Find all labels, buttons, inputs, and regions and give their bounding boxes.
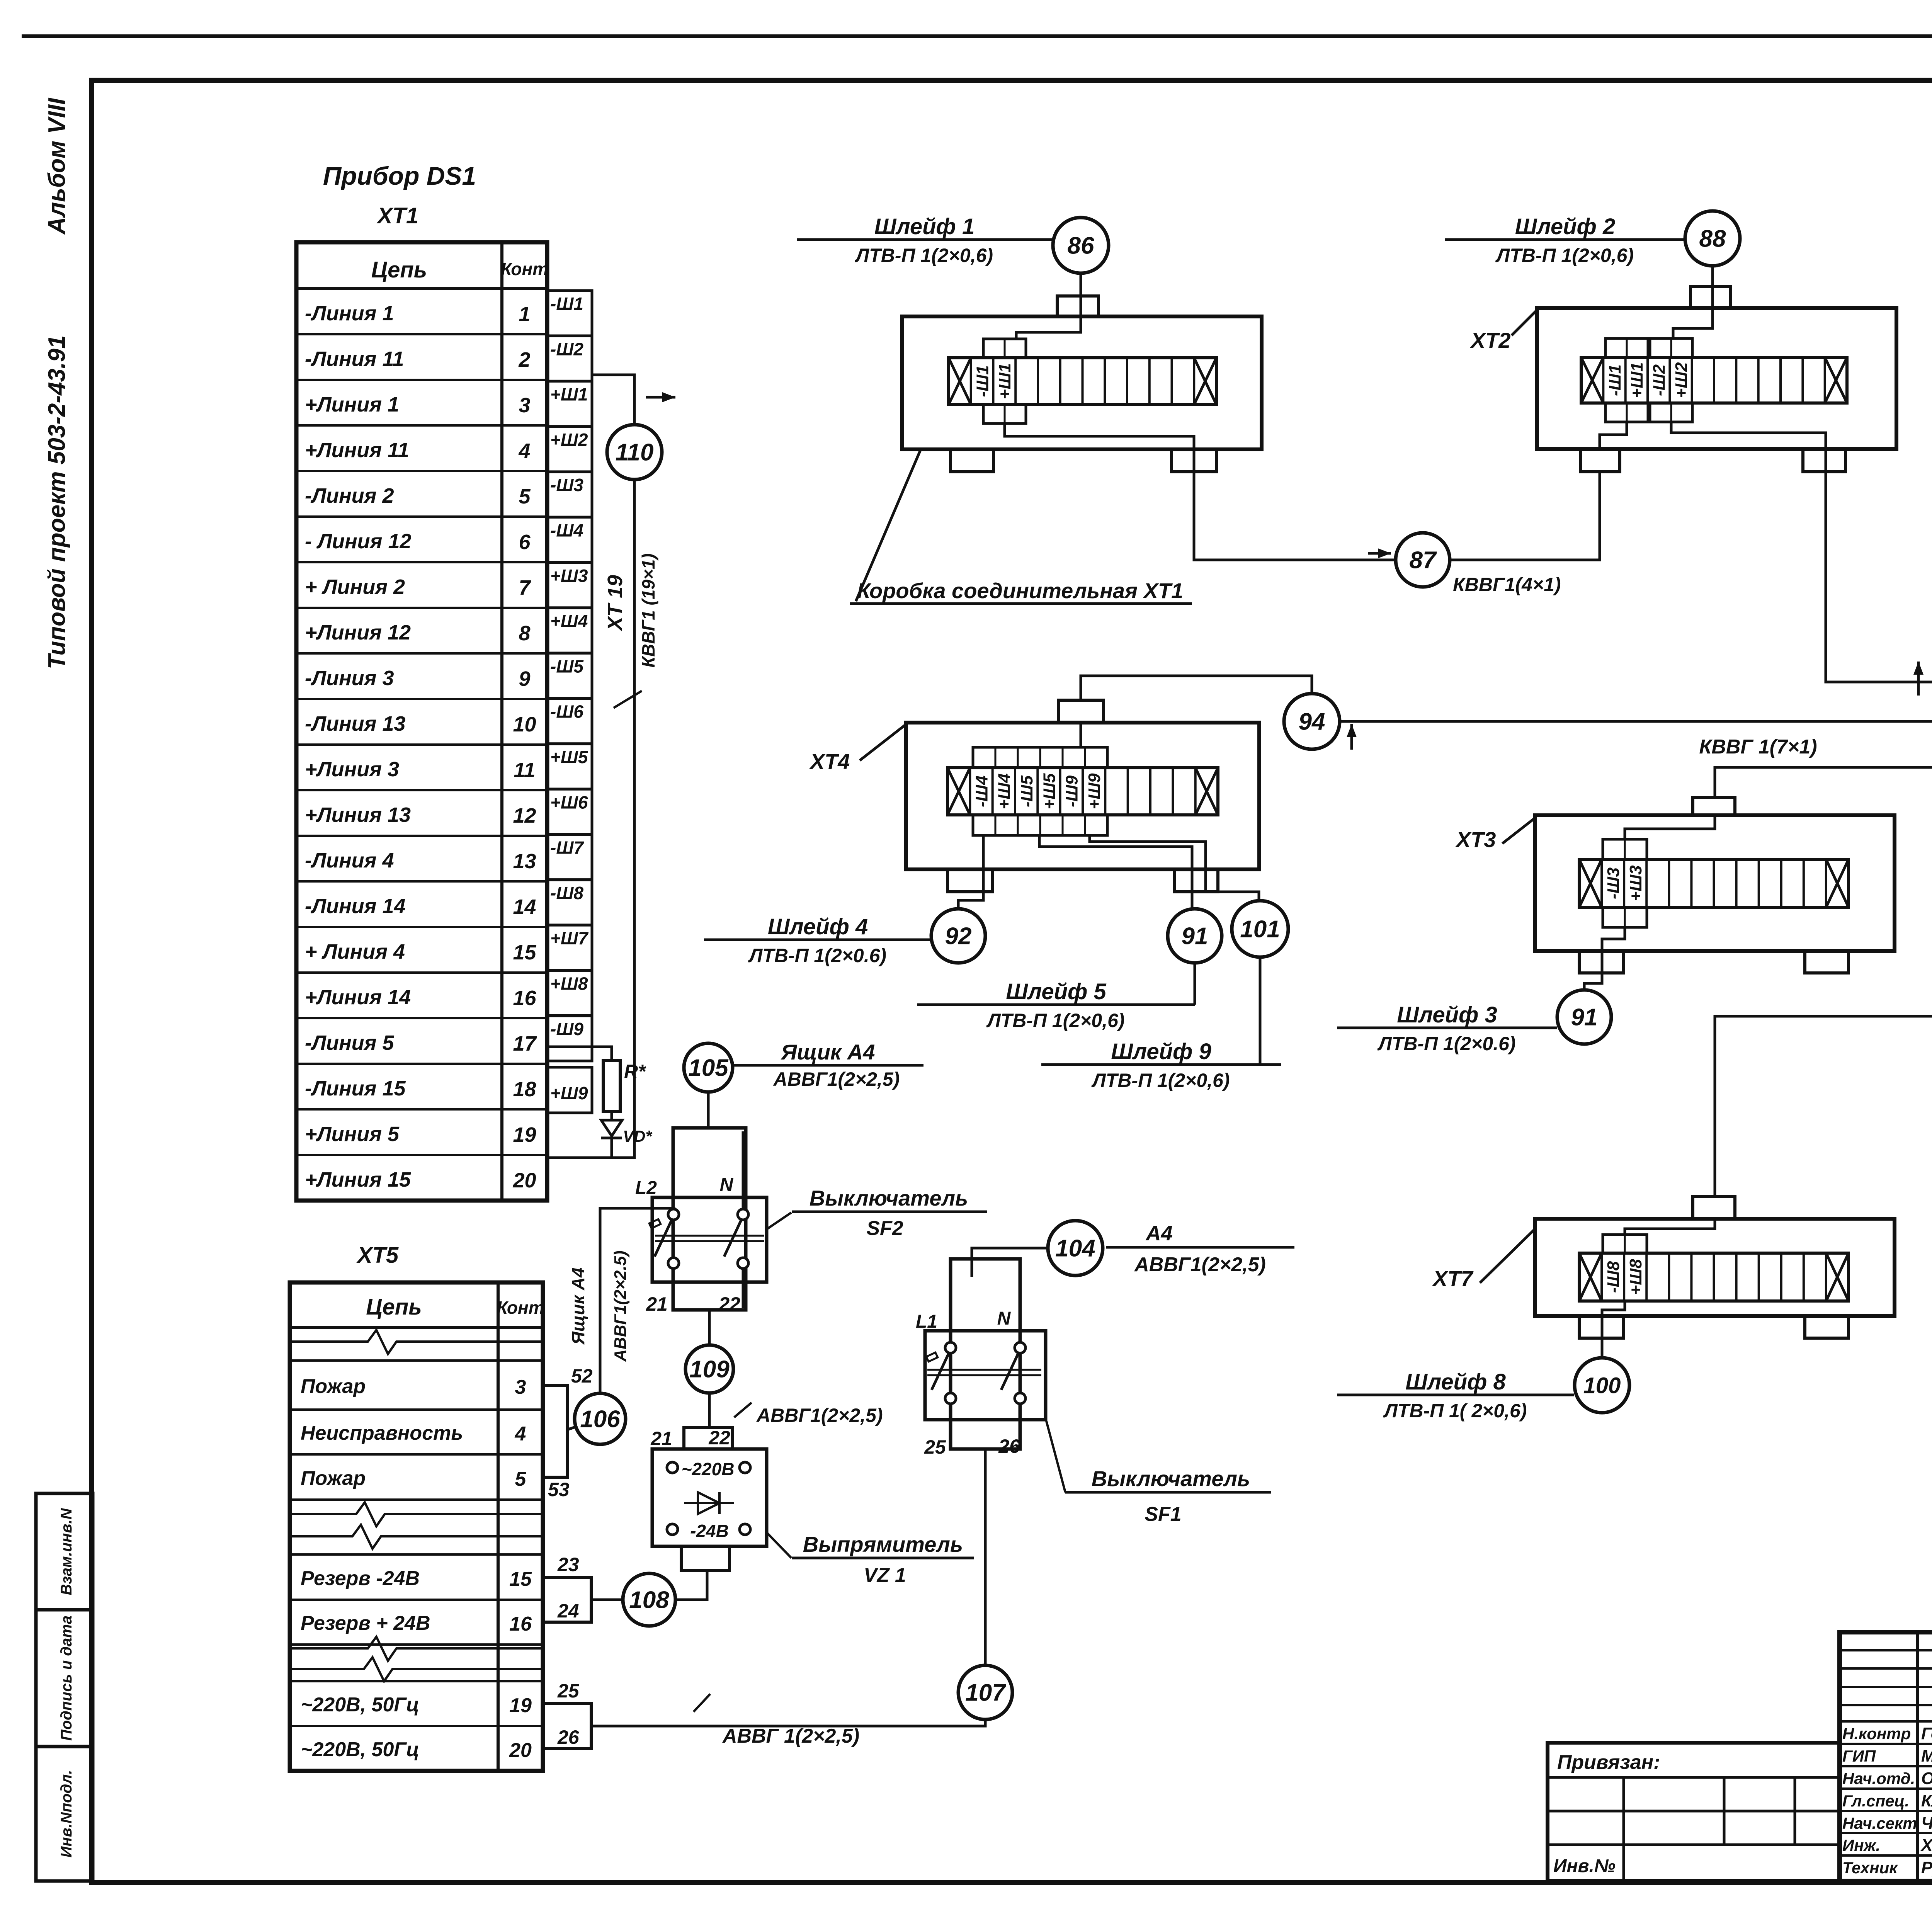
- svg-text:22: 22: [708, 1427, 730, 1449]
- box ХТ4 top tab: [1058, 700, 1104, 723]
- sheet top edge line: [22, 34, 1932, 38]
- svg-text:ХТ7: ХТ7: [1432, 1266, 1474, 1291]
- cable number circle 91 (loop 3): [1557, 990, 1611, 1044]
- junction box ХТ7 body: [1535, 1219, 1895, 1316]
- table row line 15: [296, 926, 547, 928]
- svg-text:ЛТВ-П 1(2×0,6): ЛТВ-П 1(2×0,6): [1091, 1070, 1230, 1091]
- box ХТ7 top tab: [1693, 1197, 1735, 1219]
- SF1 blades: [932, 1354, 949, 1390]
- svg-text:ХТ2: ХТ2: [1470, 328, 1511, 352]
- svg-text:11: 11: [514, 759, 535, 782]
- wire 88 into box ХТ2: [1673, 266, 1713, 338]
- svg-text:88: 88: [1699, 226, 1726, 252]
- svg-text:+Ш1: +Ш1: [550, 384, 588, 405]
- svg-text:АВВГ1(2×2,5): АВВГ1(2×2,5): [756, 1405, 883, 1426]
- svg-text:91: 91: [1182, 923, 1208, 950]
- svg-text:26: 26: [998, 1435, 1020, 1457]
- svg-text:Выпрямитель: Выпрямитель: [803, 1532, 963, 1556]
- svg-text:3: 3: [515, 1376, 526, 1398]
- svg-text:-Линия 5: -Линия 5: [305, 1031, 394, 1054]
- leader tick АВВГ1(2×2,5) near 109: [734, 1403, 752, 1417]
- svg-text:-Линия 14: -Линия 14: [305, 895, 406, 918]
- svg-text:-Линия 15: -Линия 15: [305, 1077, 406, 1100]
- svg-text:КВВГ1(4×1): КВВГ1(4×1): [1453, 574, 1561, 595]
- leader ХТ7: [1480, 1229, 1535, 1283]
- label А4 / АВВГ1(2×2,5): [1106, 1246, 1294, 1249]
- svg-text:Подпись и дата: Подпись и дата: [58, 1616, 75, 1741]
- svg-text:2: 2: [518, 348, 530, 371]
- svg-text:105: 105: [688, 1055, 729, 1082]
- svg-text:Меленчук: Меленчук: [1921, 1747, 1932, 1765]
- box ХТ1 terminal strip: [949, 358, 1216, 405]
- svg-text:Пожар: Пожар: [301, 1467, 366, 1490]
- row line: [290, 1453, 543, 1456]
- wire stub 25/26 to circle 107: [591, 1720, 985, 1726]
- cable number circle 94: [1284, 694, 1340, 749]
- rectifier input stub: [684, 1428, 732, 1449]
- svg-text:Альбом VIII: Альбом VIII: [44, 97, 70, 235]
- svg-text:+Ш7: +Ш7: [550, 928, 589, 948]
- terminal tab +Ш5: [547, 744, 592, 789]
- svg-text:-Ш1: -Ш1: [973, 365, 992, 397]
- cable number circle 104: [1048, 1221, 1103, 1276]
- rectifier output contacts: [667, 1524, 678, 1535]
- resistor R*: [603, 1061, 620, 1112]
- terminal table ХТ1 of device DS1: [296, 242, 547, 1201]
- svg-text:Привязан:: Привязан:: [1557, 1751, 1660, 1774]
- wire 86 into box ХТ1: [1016, 273, 1081, 339]
- svg-text:+Ш1: +Ш1: [1628, 362, 1646, 398]
- label Шлейф 4 / ЛТВ-П 1(2×0.6): [704, 939, 932, 941]
- wire box ХТ2 left foot to 87 line: [1600, 422, 1627, 450]
- table row line 20: [296, 1154, 547, 1156]
- cable number circle 91 (loop 5): [1168, 909, 1222, 963]
- table row line 9: [296, 652, 547, 655]
- leader to VZ1: [767, 1533, 791, 1558]
- svg-text:110: 110: [616, 439, 654, 466]
- svg-text:+Ш4: +Ш4: [550, 611, 588, 631]
- svg-text:86: 86: [1068, 233, 1094, 259]
- box ХТ3 feet: [1579, 951, 1623, 973]
- svg-text:Инж.: Инж.: [1842, 1836, 1880, 1854]
- svg-text:Конт: Конт: [497, 1298, 544, 1318]
- svg-text:Техник: Техник: [1842, 1859, 1898, 1877]
- wire ХТ4 top to circle 94: [1081, 676, 1312, 700]
- wire ХТ4 to circle 101: [1090, 835, 1259, 901]
- junction box ХТ2 body: [1537, 308, 1896, 449]
- svg-text:Прибор DS1: Прибор DS1: [323, 162, 476, 190]
- cable number circle 86: [1053, 218, 1109, 273]
- svg-text:-Ш1: -Ш1: [1605, 364, 1624, 396]
- svg-text:101: 101: [1240, 916, 1280, 943]
- svg-text:4: 4: [515, 1423, 526, 1445]
- table row line 14: [296, 880, 547, 883]
- title block outer: [1840, 1632, 1932, 1881]
- terminal tab -Ш5: [547, 653, 592, 698]
- diode VD*: [601, 1120, 622, 1136]
- long wire 94 to ХТ19 foot2 (КВВГ 1(7×1)): [1340, 603, 1932, 721]
- svg-text:13: 13: [513, 850, 536, 873]
- svg-text:-Линия 1: -Линия 1: [305, 302, 394, 325]
- svg-text:-Линия 4: -Линия 4: [305, 849, 394, 872]
- svg-text:Взам.инв.N: Взам.инв.N: [58, 1508, 75, 1595]
- wire 87 to box ХТ2: [1450, 472, 1600, 560]
- svg-text:87: 87: [1410, 547, 1437, 574]
- svg-text:Шлейф 2: Шлейф 2: [1515, 214, 1615, 239]
- wire resistor to diode: [611, 1112, 613, 1120]
- svg-text:53: 53: [548, 1479, 570, 1500]
- svg-text:12: 12: [513, 804, 536, 827]
- row line: [290, 1359, 543, 1362]
- leader tick АВВГ 1(2×2,5): [694, 1694, 710, 1712]
- table break squiggle 1: [290, 1330, 543, 1354]
- svg-text:-Линия 11: -Линия 11: [305, 347, 404, 371]
- cable number circle 88: [1685, 211, 1740, 266]
- title block left rows: [1840, 1649, 1932, 1651]
- svg-text:20: 20: [512, 1169, 536, 1192]
- wire ХТ4 to circle 91: [1039, 835, 1192, 909]
- svg-text:-Ш9: -Ш9: [550, 1019, 583, 1039]
- svg-text:+Ш2: +Ш2: [550, 430, 588, 450]
- svg-text:+Ш5: +Ш5: [550, 747, 588, 767]
- svg-text:5: 5: [515, 1468, 527, 1490]
- svg-text:+Ш8: +Ш8: [550, 974, 588, 994]
- table row line 13: [296, 835, 547, 837]
- SF2 blades: [655, 1220, 672, 1257]
- cable number circle 108: [623, 1573, 675, 1626]
- svg-text:АВВГ 1(2×2,5): АВВГ 1(2×2,5): [722, 1725, 859, 1747]
- svg-text:Коробка соединительная ХТ1: Коробка соединительная ХТ1: [857, 578, 1184, 603]
- svg-text:SF1: SF1: [1145, 1503, 1181, 1526]
- wire ХТ7 to circle 100: [1602, 1301, 1625, 1358]
- left stamp box Инв.N подл.: [36, 1747, 93, 1881]
- svg-text:Хаишбашева: Хаишбашева: [1920, 1836, 1932, 1855]
- svg-text:L1: L1: [916, 1311, 937, 1332]
- svg-text:108: 108: [629, 1587, 669, 1614]
- svg-text:КВВГ1 (19×1): КВВГ1 (19×1): [638, 553, 658, 668]
- svg-text:24: 24: [557, 1600, 579, 1622]
- svg-text:18: 18: [513, 1078, 536, 1101]
- svg-text:-Ш9: -Ш9: [1063, 775, 1082, 807]
- svg-text:-Линия 3: -Линия 3: [305, 667, 394, 690]
- switch SF2 contact box: [652, 1197, 767, 1282]
- box ХТ2 strip tabs: [1605, 338, 1648, 357]
- svg-text:SF2: SF2: [866, 1217, 903, 1240]
- svg-text:+Линия 1: +Линия 1: [305, 393, 399, 416]
- wire 109 to rectifier: [708, 1393, 711, 1428]
- svg-text:26: 26: [557, 1726, 580, 1748]
- SF2 linkage double line: [655, 1235, 764, 1237]
- svg-text:+Ш1: +Ш1: [995, 363, 1014, 399]
- svg-text:3: 3: [519, 394, 530, 417]
- svg-text:21: 21: [646, 1293, 668, 1315]
- svg-text:R*: R*: [624, 1061, 646, 1082]
- svg-text:+Ш9: +Ш9: [1085, 773, 1104, 810]
- svg-text:4: 4: [518, 439, 530, 463]
- svg-text:ЛТВ-П 1(2×0.6): ЛТВ-П 1(2×0.6): [748, 945, 886, 966]
- leader ХТ4: [860, 723, 907, 760]
- svg-text:VD*: VD*: [623, 1127, 652, 1145]
- terminal tab +Ш2: [547, 427, 592, 472]
- svg-text:Типовой проект 503-2-43.91: Типовой проект 503-2-43.91: [44, 335, 70, 669]
- svg-text:52: 52: [571, 1365, 593, 1387]
- cable number circle 107: [958, 1665, 1012, 1719]
- table row line 6: [296, 515, 547, 518]
- wire stub to circle 108: [591, 1599, 623, 1601]
- terminal tab +Ш6: [547, 789, 592, 834]
- svg-text:15: 15: [509, 1568, 532, 1590]
- wire 101 down to Шлейф 9 line: [1259, 957, 1262, 1065]
- wire into ХТ3: [1625, 815, 1715, 839]
- svg-text:-Ш3: -Ш3: [1604, 867, 1623, 899]
- wire ХТ3 to circle 91: [1584, 927, 1625, 990]
- svg-text:Неисправность: Неисправность: [301, 1422, 463, 1444]
- rectifier VZ1 body: [652, 1449, 767, 1546]
- table break squiggle pair 2: [290, 1502, 543, 1526]
- table break squiggle pair 3: [290, 1637, 543, 1661]
- table row line 18: [296, 1063, 547, 1065]
- box ХТ1 strip tabs: [983, 339, 1026, 358]
- rectifier diode symbol: [684, 1502, 734, 1504]
- box ХТ7 strip tabs: [1603, 1235, 1647, 1253]
- cable number circle 109: [685, 1345, 733, 1393]
- svg-text:Цепь: Цепь: [366, 1294, 422, 1320]
- box ХТ3 terminal strip: [1579, 859, 1849, 907]
- wire tab +Ш1 to cable circle 110: [592, 375, 634, 424]
- svg-text:104: 104: [1055, 1235, 1095, 1262]
- label Шлейф 8 / ЛТВ-П 1(2×0,6) left: [1337, 1394, 1574, 1396]
- svg-text:- Линия 12: - Линия 12: [305, 530, 412, 553]
- svg-text:ХТ5: ХТ5: [356, 1243, 399, 1268]
- wire 91 down to Шлейф 5 line: [1194, 963, 1196, 1005]
- svg-text:+Линия 11: +Линия 11: [305, 439, 409, 462]
- terminal table ХТ5 (fire/power circuits): [290, 1282, 543, 1771]
- svg-text:АВВГ1(2×2.5): АВВГ1(2×2.5): [611, 1250, 630, 1362]
- svg-text:94: 94: [1299, 709, 1325, 735]
- svg-text:1: 1: [519, 303, 530, 326]
- svg-text:+Линия 5: +Линия 5: [305, 1122, 400, 1146]
- svg-text:91: 91: [1571, 1004, 1598, 1031]
- svg-text:Осовский: Осовский: [1921, 1769, 1932, 1788]
- label Коробка соединительная ХТ1: [850, 602, 1192, 605]
- terminal tab +Ш3: [547, 563, 592, 608]
- terminal tab -Ш9: [547, 1016, 592, 1061]
- svg-text:Шлейф 4: Шлейф 4: [768, 914, 868, 939]
- wire bracket to circle 106: [567, 1427, 577, 1430]
- svg-text:Шлейф 9: Шлейф 9: [1111, 1039, 1211, 1064]
- svg-text:+Ш3: +Ш3: [1626, 865, 1645, 901]
- wire ХТ4 to circle 92: [958, 835, 983, 909]
- svg-text:~220В, 50Гц: ~220В, 50Гц: [301, 1694, 419, 1716]
- terminal tab -Ш7: [547, 835, 592, 880]
- svg-text:Нач.отд.: Нач.отд.: [1842, 1769, 1915, 1787]
- label Шлейф 2 / ЛТВ-П 1(2×0,6): [1445, 238, 1685, 241]
- long wire КВВГ 1(4×1) from 99 to ХТ7: [1715, 1016, 1932, 1197]
- left stamp box Взам.инв.N: [36, 1493, 93, 1610]
- svg-text:-Ш4: -Ш4: [550, 520, 583, 541]
- terminal tab +Ш9: [547, 1067, 592, 1113]
- left stamp box Подпись и дата: [36, 1610, 93, 1747]
- label Шлейф 5 / ЛТВ-П 1(2×0,6): [917, 1003, 1195, 1006]
- svg-text:ЛТВ-П 1( 2×0,6): ЛТВ-П 1( 2×0,6): [1383, 1400, 1527, 1422]
- wire 104 to switch SF1: [972, 1248, 1048, 1277]
- svg-text:19: 19: [513, 1123, 536, 1146]
- svg-text:ЛТВ-П 1(2×0,6): ЛТВ-П 1(2×0,6): [1495, 245, 1634, 266]
- svg-text:-Ш6: -Ш6: [550, 702, 583, 722]
- svg-text:10: 10: [513, 713, 536, 736]
- svg-text:VZ 1: VZ 1: [864, 1564, 906, 1587]
- svg-text:-Ш2: -Ш2: [550, 339, 583, 359]
- svg-text:20: 20: [509, 1739, 532, 1762]
- riser wire ХТ 19 cable from 110 down to contact 20: [547, 480, 634, 1158]
- svg-text:~220В: ~220В: [682, 1459, 735, 1479]
- box ХТ1 top tab: [1057, 296, 1099, 316]
- svg-text:23: 23: [557, 1554, 579, 1575]
- cable number circle 92: [931, 909, 985, 963]
- svg-text:-Ш3: -Ш3: [550, 475, 583, 495]
- terminal tab -Ш3: [547, 472, 592, 517]
- svg-text:6: 6: [519, 531, 531, 554]
- table row line 19: [296, 1108, 547, 1111]
- stub contacts 19/20 (wires 25/26): [543, 1704, 591, 1748]
- cable number circle 87: [1396, 533, 1450, 587]
- svg-text:106: 106: [580, 1406, 620, 1433]
- box ХТ2 top tab: [1690, 287, 1731, 308]
- svg-text:107: 107: [965, 1680, 1006, 1706]
- leader ХТ3: [1502, 817, 1536, 844]
- wire 108 to rectifier output: [675, 1572, 707, 1600]
- svg-text:~220В, 50Гц: ~220В, 50Гц: [301, 1738, 419, 1761]
- table row line 8: [296, 607, 547, 609]
- svg-text:-Ш5: -Ш5: [550, 656, 584, 676]
- svg-text:Шлейф 8: Шлейф 8: [1405, 1369, 1506, 1395]
- wire contact 18 to resistor R*: [547, 1047, 612, 1061]
- svg-text:+Ш4: +Ш4: [995, 773, 1014, 809]
- box ХТ4 feet: [947, 869, 992, 892]
- box ХТ2 feet: [1580, 449, 1620, 472]
- SF1 linkage double line: [927, 1369, 1041, 1371]
- svg-text:Черепахина: Черепахина: [1921, 1814, 1932, 1833]
- cable number circle 106: [575, 1393, 626, 1444]
- svg-text:Климов: Климов: [1921, 1791, 1932, 1810]
- table row line 2: [296, 333, 547, 335]
- SF1 contacts: [945, 1342, 956, 1353]
- svg-text:7: 7: [519, 576, 531, 599]
- box ХТ3 strip tabs: [1603, 839, 1647, 859]
- long wire 90 to box ХТ3 (КВВГ1 4x1): [1715, 767, 1932, 798]
- wire inside ХТ4 top: [1080, 723, 1082, 747]
- leader to box ХТ1: [856, 450, 920, 601]
- svg-text:9: 9: [519, 667, 530, 690]
- svg-text:+Линия 14: +Линия 14: [305, 986, 411, 1009]
- svg-text:19: 19: [509, 1694, 532, 1717]
- svg-text:ХТ4: ХТ4: [809, 749, 850, 774]
- svg-text:+Линия 12: +Линия 12: [305, 621, 411, 644]
- terminal tab +Ш1: [547, 381, 592, 427]
- terminal tab -Ш6: [547, 699, 592, 744]
- table row line 3: [296, 379, 547, 381]
- svg-text:Резерв -24В: Резерв -24В: [301, 1567, 420, 1590]
- bracket contacts 3-5 (wires 52/53): [543, 1385, 567, 1477]
- svg-text:Инв.Nподл.: Инв.Nподл.: [58, 1770, 75, 1858]
- svg-text:А4: А4: [1145, 1222, 1172, 1245]
- label Выключатель SF1: [1065, 1491, 1271, 1494]
- up arrow on 89 wire: [1917, 662, 1920, 696]
- svg-text:ХТ3: ХТ3: [1455, 827, 1496, 852]
- wire box ХТ1 to circle 87: [1005, 423, 1396, 560]
- switch SF1 contact box: [925, 1331, 1046, 1420]
- wire SF1 to circle 107: [984, 1449, 987, 1665]
- svg-text:АВВГ1(2×2,5): АВВГ1(2×2,5): [773, 1068, 900, 1090]
- cable number circle 100: [1575, 1358, 1629, 1413]
- leader tick for rotated label: [614, 691, 642, 708]
- svg-text:Выключатель: Выключатель: [810, 1186, 968, 1210]
- terminal tab -Ш8: [547, 880, 592, 925]
- label Выключатель SF2: [792, 1211, 987, 1213]
- svg-text:92: 92: [945, 923, 972, 950]
- wire into ХТ7: [1625, 1219, 1715, 1235]
- SF1 pole wires: [949, 1263, 952, 1343]
- table row line 7: [296, 561, 547, 563]
- pair arrows on wire to 87: [1368, 552, 1391, 555]
- stub contacts 15/16 (wires 23/24): [543, 1577, 591, 1622]
- table row line 16: [296, 971, 547, 974]
- label Ящик А4 / АВВГ1(2×2,5): [733, 1064, 923, 1067]
- svg-text:+Ш6: +Ш6: [550, 792, 588, 812]
- rectifier output stub: [681, 1546, 730, 1570]
- svg-text:Н.контр: Н.контр: [1842, 1725, 1911, 1743]
- svg-text:21: 21: [650, 1428, 672, 1449]
- table row line 12: [296, 789, 547, 791]
- cable number circle 105: [684, 1043, 733, 1092]
- svg-text:Ящик А4: Ящик А4: [568, 1267, 588, 1345]
- SF2 contacts: [668, 1209, 679, 1220]
- label Выпрямитель VZ1: [792, 1557, 974, 1560]
- row line: [290, 1553, 543, 1556]
- leader ХТ2: [1512, 309, 1538, 335]
- svg-text:-Линия 2: -Линия 2: [305, 484, 394, 507]
- svg-text:ЛТВ-П 1(2×0.6): ЛТВ-П 1(2×0.6): [1377, 1033, 1515, 1054]
- terminal tab +Ш4: [547, 608, 592, 653]
- row line: [290, 1498, 543, 1501]
- table row line 10: [296, 698, 547, 700]
- svg-text:+Линия 15: +Линия 15: [305, 1168, 411, 1191]
- svg-text:+Линия 13: +Линия 13: [305, 803, 411, 827]
- table row line 5: [296, 470, 547, 472]
- svg-text:-Линия 13: -Линия 13: [305, 712, 406, 735]
- cable wire 106 up to box A4: [600, 1208, 675, 1393]
- svg-text:Гл.спец.: Гл.спец.: [1842, 1792, 1909, 1810]
- svg-text:Конт: Конт: [501, 259, 548, 279]
- wire diode to contact 20 wire: [611, 1138, 613, 1158]
- SF2 pole wires: [672, 1131, 675, 1210]
- terminal tab -Ш4: [547, 517, 592, 563]
- svg-text:109: 109: [689, 1356, 730, 1383]
- terminal tab +Ш8: [547, 971, 592, 1016]
- svg-text:+ Линия 4: + Линия 4: [305, 940, 405, 963]
- leader to SF2: [767, 1213, 791, 1229]
- box ХТ4 strip tabs: [973, 747, 1107, 768]
- table row line 17: [296, 1017, 547, 1019]
- row line: [290, 1599, 543, 1601]
- svg-text:17: 17: [513, 1032, 537, 1055]
- box ХТ4 terminal strip: [947, 768, 1218, 815]
- svg-text:Резерв + 24В: Резерв + 24В: [301, 1612, 430, 1634]
- svg-text:ЛТВ-П 1(2×0,6): ЛТВ-П 1(2×0,6): [986, 1010, 1124, 1031]
- terminal tab +Ш7: [547, 925, 592, 970]
- svg-text:15: 15: [513, 941, 536, 964]
- svg-text:25: 25: [924, 1436, 946, 1458]
